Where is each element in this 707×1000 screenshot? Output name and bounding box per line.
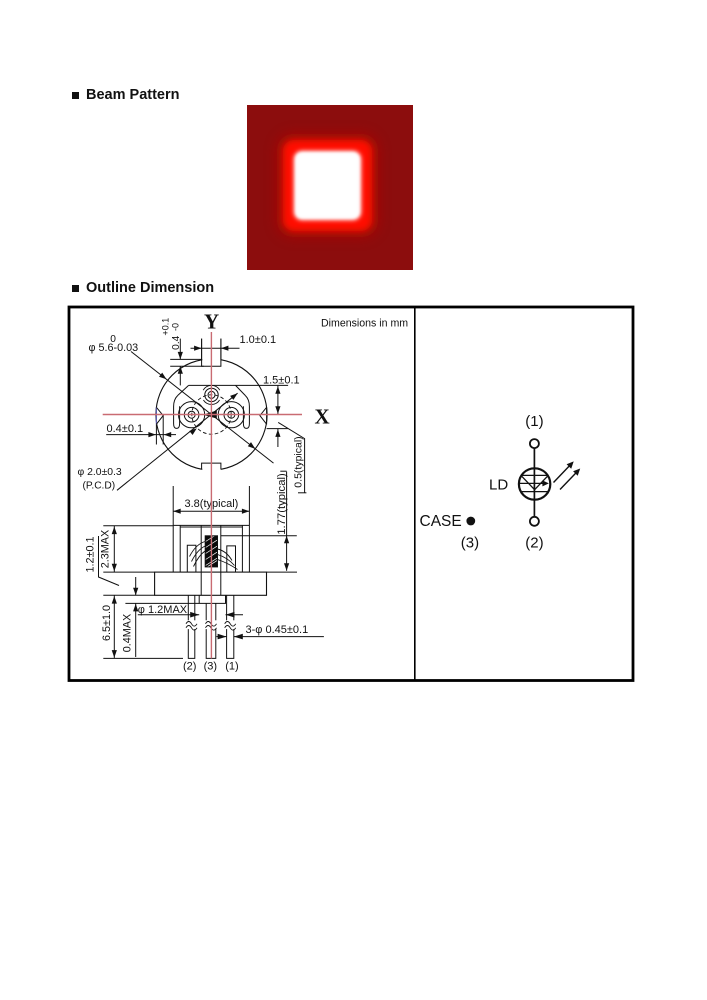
svg-text:(2): (2)	[183, 660, 196, 672]
crosshair Y axis / centerline (red)	[210, 332, 212, 658]
svg-text:0: 0	[110, 334, 116, 345]
3.8 typical dim	[172, 486, 174, 525]
laser chip (hatched)	[205, 536, 217, 567]
chip mark at center	[203, 411, 217, 419]
emission arrow 1	[554, 464, 571, 482]
svg-text:(1): (1)	[225, 660, 238, 672]
ext lines left	[103, 571, 154, 573]
dim 1.0±0.1	[201, 339, 203, 360]
pin 3 circle	[208, 391, 215, 398]
svg-text:Dimensions in mm: Dimensions in mm	[321, 317, 408, 329]
emission arrow 2	[560, 472, 577, 490]
pin 3 (top) collar	[205, 388, 218, 401]
pin 3 outer arcs	[203, 385, 220, 390]
wire pin1 to LD	[533, 448, 535, 517]
svg-text:(3): (3)	[461, 534, 479, 551]
svg-text:2.3MAX: 2.3MAX	[99, 530, 111, 568]
top index notch	[202, 339, 221, 367]
dim 1.77 typical	[286, 472, 288, 571]
svg-text:φ 2.0±0.3: φ 2.0±0.3	[78, 467, 122, 478]
flange	[155, 572, 267, 595]
svg-text:1.2±0.1: 1.2±0.1	[85, 537, 97, 573]
laser diode U1 circle	[519, 468, 550, 499]
P.C.D dashed circle	[192, 395, 231, 434]
outline dimension table frame	[69, 307, 633, 681]
svg-text:X: X	[315, 405, 330, 429]
case terminal dot	[466, 517, 475, 526]
beam pattern image	[247, 105, 413, 270]
bottom index notch	[202, 463, 221, 469]
svg-text:0.4±0.1: 0.4±0.1	[107, 423, 144, 435]
svg-text:3-φ 0.45±0.1: 3-φ 0.45±0.1	[246, 624, 309, 636]
svg-text:1.5±0.1: 1.5±0.1	[263, 374, 300, 386]
dim 6.5±1.0	[113, 595, 115, 658]
crosshair X axis (red)	[103, 414, 302, 416]
step bottom ext	[125, 602, 199, 604]
bond wires right	[218, 549, 233, 561]
pin 2 (left) collar	[179, 402, 205, 428]
right post	[227, 546, 236, 572]
cap outline	[103, 525, 173, 527]
svg-text:1.77(typical): 1.77(typical)	[276, 473, 288, 535]
svg-text:Y: Y	[204, 310, 219, 334]
svg-text:0.5(typical): 0.5(typical)	[293, 436, 305, 487]
can outline circle (top view)	[156, 359, 267, 470]
right flat	[266, 407, 268, 424]
svg-text:6.5±1.0: 6.5±1.0	[101, 605, 113, 641]
beam glow outer	[277, 134, 378, 237]
svg-text:(3): (3)	[204, 660, 217, 672]
pin lead 1	[227, 595, 234, 658]
dim 2.3MAX	[113, 526, 115, 572]
pin 1 circles	[224, 407, 239, 422]
svg-text:0.4MAX: 0.4MAX	[122, 614, 134, 652]
dim 0.5 typical right	[267, 428, 288, 430]
band chamfers	[178, 385, 189, 395]
pin lead 3	[206, 603, 216, 658]
chip top extension line	[221, 535, 297, 537]
beam white core	[296, 153, 359, 218]
pin break squiggles	[186, 620, 197, 629]
bond wires left	[190, 542, 206, 557]
inner cap band top edge + 1.5 extension line	[189, 384, 289, 386]
PCD leader diagonal	[117, 393, 238, 490]
left flat (0.4 dim)	[155, 407, 157, 424]
LD triangle	[522, 476, 548, 489]
pin 1 (right) collar	[218, 402, 244, 428]
beam glow red ring	[283, 140, 372, 231]
svg-text:(2): (2)	[525, 534, 543, 551]
band right slot	[243, 395, 249, 428]
LD internal arrow	[519, 482, 543, 484]
dim 0.4 notch depth	[170, 358, 201, 360]
svg-text:-0: -0	[170, 323, 180, 331]
dim 0.4MAX line	[135, 577, 137, 595]
pin 2 circles	[184, 407, 199, 422]
left post	[187, 545, 196, 572]
beam glow white halo	[294, 151, 361, 220]
flange top ext right	[267, 571, 298, 573]
pin lead 2	[188, 595, 195, 658]
1.2 bracket	[99, 536, 120, 586]
notch erase	[202, 356, 220, 365]
LD anode bar	[521, 474, 548, 476]
svg-text:(P.C.D): (P.C.D)	[83, 481, 116, 492]
svg-text:LD: LD	[489, 477, 508, 494]
LD cathode bar	[522, 491, 548, 493]
svg-text:0.4: 0.4	[171, 335, 182, 349]
heading: Outline Dimension	[72, 280, 214, 296]
wire LD to pin2	[533, 516, 535, 519]
svg-text:1.0±0.1: 1.0±0.1	[240, 334, 277, 346]
phi5.6 leader diagonal	[131, 352, 274, 464]
svg-text:(1): (1)	[525, 413, 543, 430]
terminal pin 2	[530, 517, 539, 526]
svg-text:+0.1: +0.1	[160, 318, 170, 336]
label 0.4 +0.1/-0	[160, 318, 182, 350]
terminal pin 1	[530, 439, 539, 448]
band left slot	[174, 395, 180, 428]
seal step	[199, 595, 225, 603]
window pedestal columns	[200, 525, 202, 595]
svg-text:CASE: CASE	[420, 513, 462, 530]
heading: Beam Pattern	[72, 87, 179, 103]
